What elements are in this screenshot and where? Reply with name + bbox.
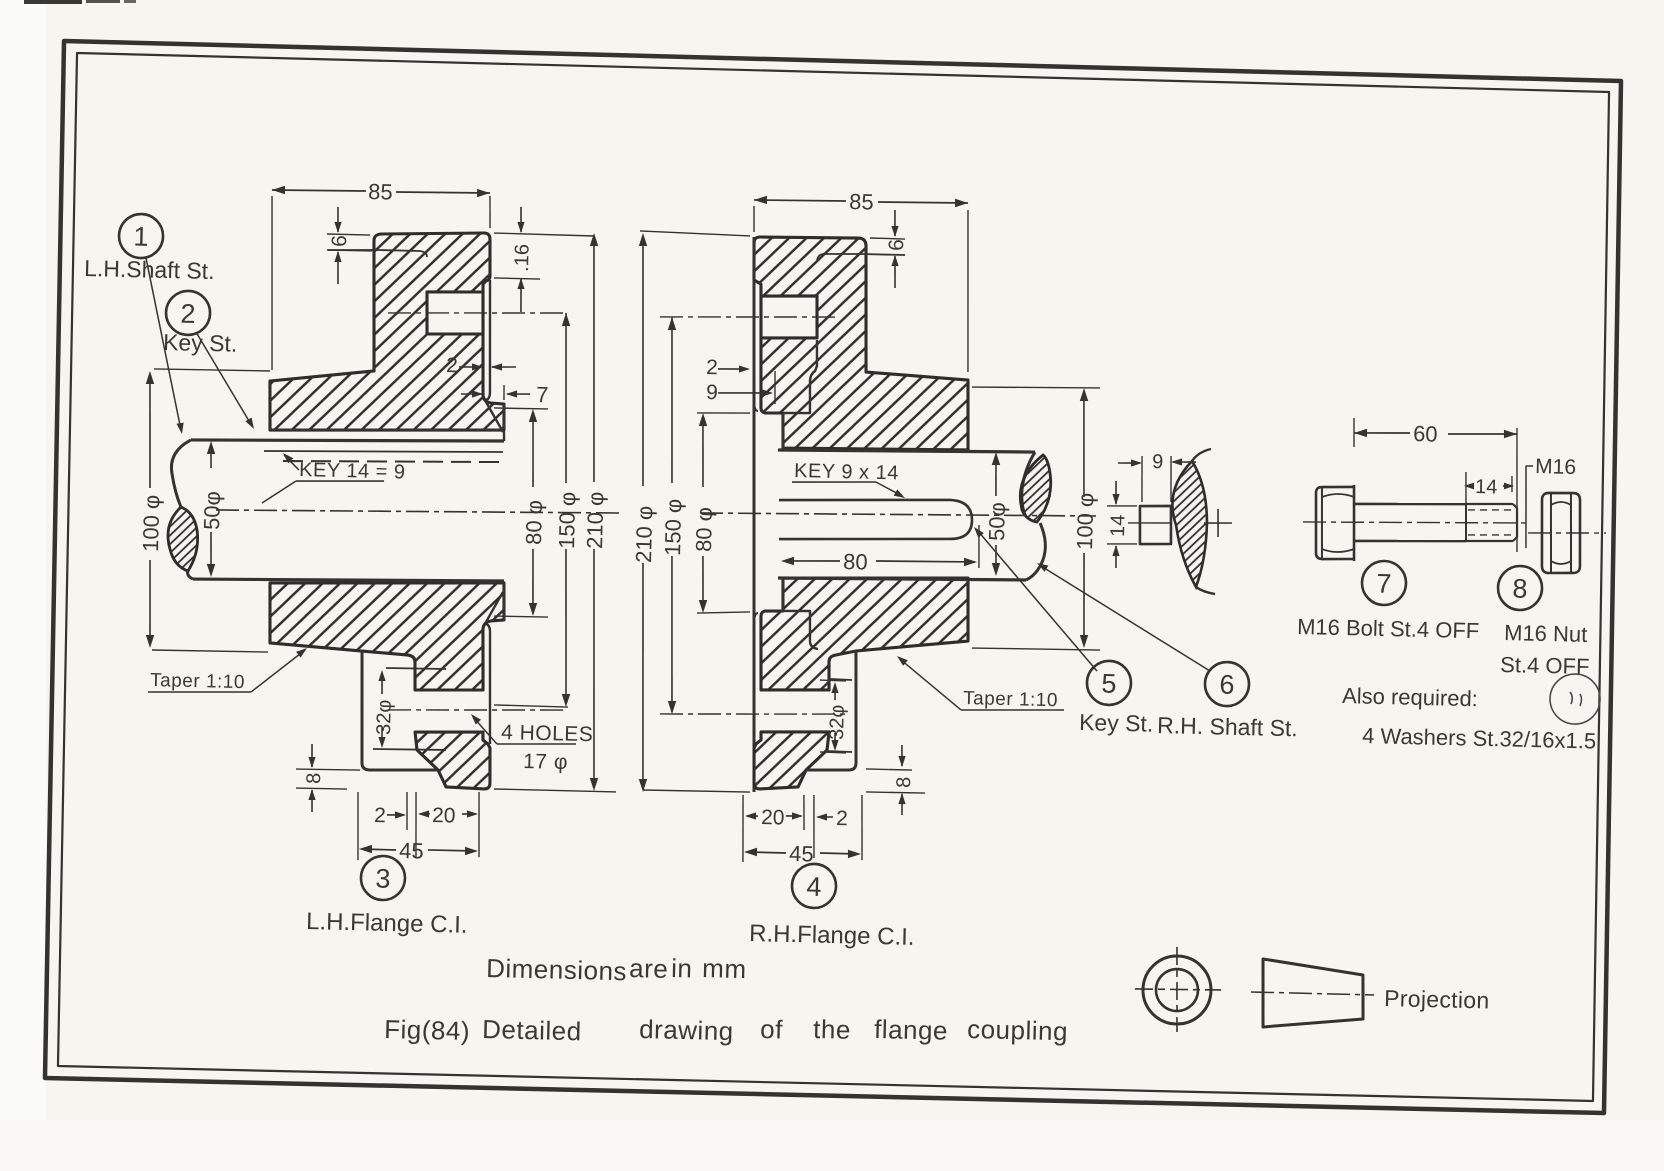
dim 45 left view	[362, 849, 396, 850]
svg-text:8: 8	[303, 772, 325, 784]
svg-text:45: 45	[789, 841, 814, 867]
dim 14 (key height)	[1107, 505, 1137, 506]
R.H. face ring lower U	[754, 613, 758, 620]
svg-text:85: 85	[368, 179, 393, 205]
dim 8 (right view)	[866, 769, 912, 770]
svg-text:60: 60	[1413, 421, 1438, 447]
R.H. view centerline	[700, 507, 1096, 523]
dim 80 (key length, right view)	[978, 525, 980, 568]
svg-text:4 HOLES: 4 HOLES	[501, 721, 594, 746]
R.H. lower spigot face	[782, 578, 784, 611]
dim 100 dia (left view)	[154, 368, 270, 371]
bolt M16: head	[1314, 486, 1355, 560]
svg-text:Taper 1:10: Taper 1:10	[963, 688, 1058, 711]
nut chamfer arcs	[1551, 502, 1571, 506]
svg-text:2: 2	[180, 299, 196, 329]
L.H. key bottom line in shaft	[264, 446, 503, 456]
svg-text:M16: M16	[1535, 455, 1576, 479]
L.H. upper bolt hole axis	[388, 309, 568, 317]
R.H. shaft break curve	[1021, 452, 1035, 515]
dim 60 (bolt)	[1353, 418, 1354, 447]
dim 6 (left view)	[327, 234, 370, 235]
svg-text:32φ: 32φ	[373, 699, 396, 735]
nut facet lines	[1549, 494, 1553, 572]
projection symbol cone	[1261, 959, 1364, 1029]
dim 7 (left view hub face)	[503, 385, 506, 400]
svg-text:8: 8	[1512, 574, 1528, 604]
projection symbol circles	[1142, 955, 1212, 1025]
R.H. lower web face notch	[782, 610, 819, 649]
L.H. flange upper half section	[269, 228, 509, 435]
svg-text:80: 80	[843, 549, 868, 575]
L.H. flange guard-rim inner edge line	[328, 249, 427, 257]
svg-text:85: 85	[849, 189, 874, 215]
svg-text:50φ: 50φ	[984, 502, 1010, 541]
svg-text:1: 1	[133, 222, 149, 252]
L.H. spot-face 32 dia upper silhouette	[386, 668, 446, 670]
R.H. spigot face upper	[782, 413, 784, 448]
circle 3 L.H.Flange C.I.	[360, 855, 405, 900]
L.H. flange lower rim below bolt hole	[414, 730, 491, 789]
svg-text:32φ: 32φ	[826, 704, 849, 740]
svg-text:Taper 1:10: Taper 1:10	[150, 670, 245, 693]
svg-text:in: in	[671, 953, 693, 983]
dim 50 dia (right view shaft)	[995, 456, 997, 496]
dia dim stack left view: 150	[562, 313, 570, 483]
circle 1 L.H.Shaft St.	[119, 214, 164, 259]
dim 14 (thread length)	[1465, 472, 1467, 512]
svg-text:L.H.Shaft St.: L.H.Shaft St.	[84, 255, 215, 284]
svg-text:drawing: drawing	[639, 1014, 734, 1046]
dia dim stack right view: 80	[697, 412, 750, 414]
svg-text:20: 20	[761, 806, 785, 830]
svg-text:17 φ: 17 φ	[523, 750, 568, 774]
svg-text:the: the	[813, 1014, 851, 1045]
svg-text:20: 20	[432, 804, 456, 828]
L.H. lower keyway ramp	[486, 592, 503, 623]
dim 50 dia (left view shaft)	[210, 445, 211, 468]
dim 100 dia (right view hub)	[972, 385, 1100, 390]
svg-text:50φ: 50φ	[199, 491, 225, 530]
svg-text:Dimensions: Dimensions	[486, 953, 627, 986]
dim 16 (left view)	[494, 233, 594, 236]
svg-text:coupling: coupling	[967, 1014, 1069, 1046]
L.H. spot-face 32 dia lower silhouette	[373, 748, 446, 751]
svg-text:6: 6	[328, 235, 351, 247]
R.H. upper bolt hole axis	[660, 313, 840, 321]
L.H. lower face ring (2mm)	[483, 624, 493, 744]
svg-text:150 φ: 150 φ	[554, 491, 580, 549]
R.H. flange lower half section (above bolt hole)	[759, 573, 969, 695]
svg-text:14: 14	[1107, 514, 1130, 537]
bottom dims right view: 20 / 2 / 45	[741, 795, 744, 862]
R.H. shaft break hatched lens	[1020, 455, 1052, 523]
R.H. face ring upper U	[754, 404, 758, 411]
svg-text:45: 45	[399, 838, 424, 864]
R.H. guard-rim inner edge line	[817, 253, 905, 264]
nut M16 outline	[1540, 492, 1581, 573]
dia dim stack right view: 150	[668, 317, 676, 483]
svg-text:L.H.Flange C.I.: L.H.Flange C.I.	[306, 908, 468, 939]
projection symbol crosshair	[1135, 988, 1221, 991]
svg-text:2: 2	[706, 356, 718, 379]
L.H. hidden keyway line (dashed)	[283, 457, 500, 466]
svg-text:6: 6	[1219, 670, 1235, 700]
R.H. web face notch	[783, 339, 818, 414]
svg-text:.16: .16	[511, 244, 534, 272]
circle 6 R.H. Shaft St.	[1204, 662, 1249, 707]
svg-text:Detailed: Detailed	[482, 1014, 582, 1046]
R.H. spot-face 32 dia silhouettes	[829, 679, 852, 680]
L.H. keyway ramp at hub face	[485, 402, 503, 432]
L.H. view centerline	[216, 503, 622, 519]
circle 5 Key St.	[1086, 660, 1131, 705]
svg-text:2: 2	[836, 807, 848, 830]
svg-text:14: 14	[1475, 476, 1498, 499]
svg-text:are: are	[629, 953, 669, 984]
svg-text:80 φ: 80 φ	[521, 500, 547, 545]
svg-text:2: 2	[446, 354, 458, 377]
dim 6 (right view)	[870, 238, 905, 239]
dim 9 (key width)	[1141, 456, 1143, 502]
L.H. lower bolt hole axis	[388, 706, 568, 714]
svg-text:3: 3	[375, 864, 391, 894]
svg-text:Fig(84): Fig(84)	[384, 1014, 471, 1046]
svg-text:80 φ: 80 φ	[691, 507, 717, 552]
svg-text:KEY 14 = 9: KEY 14 = 9	[299, 459, 406, 484]
R.H. shaft outline	[778, 446, 1035, 456]
dim 85 (left view)	[268, 196, 276, 370]
R.H. flange lower rim below bolt hole	[753, 730, 829, 790]
L.H. key top line	[270, 425, 504, 436]
svg-text:Also required:: Also required:	[1342, 683, 1478, 711]
projection cone centerline	[1251, 992, 1374, 995]
svg-text:5: 5	[1101, 669, 1117, 699]
svg-text:210 φ: 210 φ	[631, 505, 657, 563]
key detail: arc tails	[1192, 449, 1211, 462]
R.H. lower bolt hole axis	[660, 710, 845, 719]
circle 8	[1498, 565, 1543, 610]
svg-text:R.H. Shaft St.: R.H. Shaft St.	[1157, 712, 1298, 741]
key detail: hub bore arc hatched crescent	[1170, 461, 1208, 588]
svg-text:100 φ: 100 φ	[138, 494, 164, 552]
dim 45 right view	[747, 852, 786, 853]
svg-text:7: 7	[536, 382, 549, 407]
L.H. shaft break hatched lens	[167, 507, 198, 571]
dim 32 dia (left view spot face)	[381, 673, 384, 694]
dia dim stack left view: 80	[494, 408, 548, 410]
scanner edge marks	[24, 0, 82, 4]
L.H. hub face edge	[503, 404, 505, 441]
svg-text:150 φ: 150 φ	[660, 498, 686, 556]
L.H. shaft break curve	[170, 440, 190, 508]
R.H. spot-face boss face	[806, 650, 859, 771]
svg-text:9: 9	[706, 381, 718, 404]
svg-text:7: 7	[1376, 569, 1392, 599]
bolt head chamfer arcs	[1322, 494, 1354, 498]
svg-text:Projection: Projection	[1384, 985, 1490, 1013]
svg-text:4: 4	[806, 872, 822, 902]
bolt centerline	[1303, 518, 1527, 528]
dim 32 dia (right view spot face)	[820, 679, 846, 682]
svg-text:8: 8	[893, 776, 915, 788]
R.H. face line	[741, 237, 767, 792]
svg-text:of: of	[760, 1014, 784, 1045]
bottom dims left view: 2 / 20 / 45	[356, 792, 359, 860]
svg-text:Key St.: Key St.	[1079, 709, 1154, 737]
nut centerline	[1528, 531, 1606, 535]
svg-text:100 φ: 100 φ	[1072, 492, 1098, 550]
L.H. lower hub face edge	[503, 583, 505, 620]
key detail: centre cross	[1204, 522, 1232, 523]
key cross-section: square	[1139, 505, 1172, 545]
svg-text:210 φ: 210 φ	[582, 491, 608, 549]
svg-text:M16 Bolt St.4 OFF: M16 Bolt St.4 OFF	[1297, 614, 1480, 643]
R.H. keyway slot in shaft (rounded end)	[778, 496, 972, 544]
svg-text:Key St.: Key St.	[163, 329, 238, 357]
circle 4 R.H.Flange C.I.	[792, 863, 837, 908]
svg-text:2: 2	[374, 804, 386, 827]
R.H. flange upper half section	[749, 236, 973, 453]
faint stamp circle	[1549, 673, 1600, 724]
dia dim stack left view: 210	[588, 236, 600, 482]
svg-text:mm: mm	[702, 953, 747, 984]
dim 85 (right view)	[753, 206, 754, 232]
L.H. spot-face boss face	[359, 651, 441, 772]
svg-text:6: 6	[885, 239, 908, 251]
svg-text:9: 9	[1152, 451, 1164, 473]
circle 2 Key St.	[166, 290, 211, 335]
svg-text:St.4 OFF: St.4 OFF	[1500, 652, 1590, 679]
svg-text:KEY 9 x 14: KEY 9 x 14	[794, 460, 899, 484]
bolt shank	[1354, 501, 1466, 506]
L.H. flange face ring (2mm)	[486, 280, 493, 400]
circle 7	[1361, 560, 1406, 605]
dia dim stack right view: 210	[640, 231, 750, 236]
L.H. shaft outline	[191, 434, 504, 448]
bolt threaded end	[1466, 503, 1513, 505]
svg-text:flange: flange	[874, 1014, 949, 1046]
svg-text:M16 Nut: M16 Nut	[1504, 620, 1588, 647]
dim 8 (left view)	[296, 769, 360, 771]
svg-text:R.H.Flange C.I.: R.H.Flange C.I.	[749, 920, 915, 951]
L.H. flange lower half section (above bolt hole)	[268, 577, 505, 692]
